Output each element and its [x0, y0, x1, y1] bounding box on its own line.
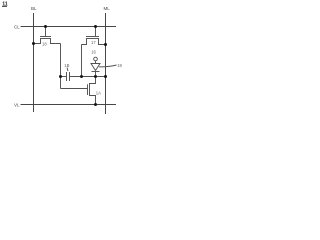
svg-text:18: 18 — [42, 42, 47, 47]
svg-text:17: 17 — [91, 40, 96, 45]
svg-text:ML: ML — [104, 6, 111, 11]
svg-text:CL: CL — [14, 24, 20, 29]
svg-text:BL: BL — [31, 6, 37, 11]
svg-text:1A: 1A — [96, 91, 101, 96]
svg-text:VL: VL — [14, 102, 20, 107]
svg-text:1B: 1B — [64, 63, 69, 68]
svg-text:19: 19 — [117, 63, 122, 68]
svg-text:16: 16 — [91, 49, 96, 54]
